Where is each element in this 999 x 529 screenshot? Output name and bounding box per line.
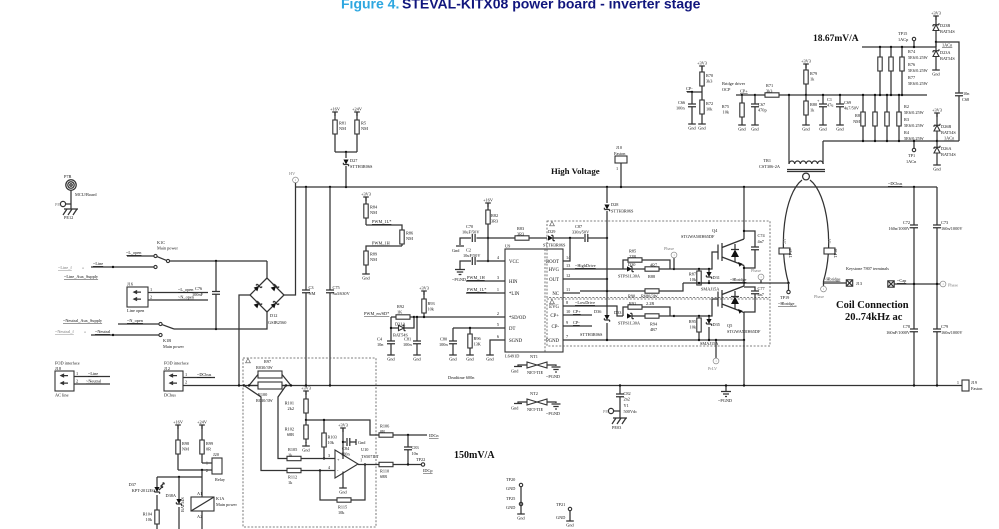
ground Gnd (C4) [387, 351, 395, 362]
svg-text:~Hbridge: ~Hbridge [730, 277, 746, 282]
junction BOOT/C87 [569, 237, 571, 239]
svg-text:SMAJ15A: SMAJ15A [701, 287, 720, 292]
svg-text:R030/3W: R030/3W [256, 398, 274, 403]
svg-text:PWM_1L*: PWM_1L* [467, 287, 486, 292]
svg-text:R98: R98 [182, 441, 189, 446]
svg-text:NT2: NT2 [530, 391, 538, 396]
diode D36 STTH3R06S [580, 309, 610, 340]
switch K1C (Main power) [154, 240, 179, 269]
svg-text:~Neutral_Aux_Supply: ~Neutral_Aux_Supply [63, 318, 103, 323]
junction TP1 [913, 140, 915, 142]
svg-text:10uF/50V: 10uF/50V [463, 253, 481, 258]
LED D37 KPT-2012EC [129, 477, 165, 510]
svg-text:D31: D31 [713, 275, 720, 280]
svg-text:Faston: Faston [614, 151, 626, 156]
junction C74 top [743, 230, 745, 232]
svg-text:2: 2 [497, 311, 499, 316]
svg-text:C66: C66 [678, 100, 686, 105]
svg-text:C70: C70 [466, 224, 473, 229]
svg-text:100n: 100n [403, 342, 412, 347]
wire feedback to R115 [320, 471, 337, 501]
svg-text:R77: R77 [908, 75, 916, 80]
resistor R2 5E6/0.25W [873, 95, 877, 141]
resistor R95 10k [689, 316, 701, 340]
junction output/R115 [364, 463, 366, 465]
svg-text:Gnd: Gnd [452, 248, 460, 253]
svg-text:10k: 10k [690, 277, 697, 282]
svg-text:470p: 470p [758, 108, 767, 113]
svg-text:10k: 10k [338, 510, 345, 515]
svg-text:C2: C2 [466, 248, 471, 253]
svg-text:3R3: 3R3 [491, 219, 498, 224]
svg-text:R92: R92 [397, 304, 404, 309]
dashed box current sense [243, 358, 376, 527]
svg-text:R104: R104 [143, 512, 153, 517]
junction C69 [839, 94, 841, 96]
svg-text:5: 5 [497, 322, 499, 327]
resistor R101 2k2 [285, 391, 309, 420]
svg-text:C83: C83 [412, 445, 419, 450]
junction R103 bottom [323, 457, 325, 459]
junction Q4 emitter [743, 282, 745, 284]
ground Gnd (C1) [819, 121, 827, 132]
svg-text:1K: 1K [397, 310, 403, 315]
svg-text:~PGND: ~PGND [718, 398, 732, 403]
testpoint TP25 GND [506, 487, 523, 510]
svg-text:1ACn: 1ACn [942, 43, 953, 48]
capacitor C2 10uF/50V [460, 248, 488, 267]
junction mid rail R76 [890, 94, 892, 96]
net tie NT1 [518, 354, 556, 375]
svg-text:~Line_Aux_Supply: ~Line_Aux_Supply [64, 274, 99, 279]
svg-text:~PGND: ~PGND [546, 411, 560, 416]
junction HV/D27 [345, 186, 347, 188]
svg-text:FOD interface: FOD interface [164, 361, 189, 366]
resistor R110 68R [379, 462, 421, 479]
junction D31 top [708, 268, 710, 270]
power +3V3 (D26B) [932, 107, 942, 117]
svg-text:R86: R86 [406, 231, 414, 236]
junction C4 [390, 327, 392, 329]
svg-text:~DCbus: ~DCbus [197, 372, 212, 377]
svg-text:NT1: NT1 [530, 354, 538, 359]
power +24V (relay) [197, 419, 208, 429]
node Phase (gate drive ref) [664, 246, 677, 269]
svg-text:BAT54S: BAT54S [940, 29, 955, 34]
svg-text:100nF: 100nF [192, 292, 204, 297]
wire ~L_open to K1C [127, 255, 154, 257]
svg-text:10uF/50V: 10uF/50V [462, 230, 480, 235]
svg-text:Y1: Y1 [624, 403, 629, 408]
junction R3 [886, 94, 888, 96]
svg-text:DCbus: DCbus [164, 393, 176, 398]
svg-text:~N_open: ~N_open [127, 318, 144, 323]
ground Gnd (TP21) [566, 517, 574, 528]
capacitor C87 330n/50V [572, 224, 607, 242]
svg-text:4R7: 4R7 [650, 263, 658, 268]
power +3V3 (R101) [301, 385, 311, 395]
svg-text:HV: HV [289, 171, 296, 176]
svg-text:U9: U9 [505, 244, 510, 249]
svg-text:3k3: 3k3 [766, 89, 772, 94]
svg-text:BOOT: BOOT [546, 260, 559, 265]
ground Gnd (C66) [688, 120, 696, 131]
wire ~Neutral row into K1B [91, 334, 159, 336]
junction J10 [620, 186, 622, 188]
wire Q5 collector to Hbridge [743, 283, 745, 286]
svg-text:1: 1 [497, 287, 499, 292]
svg-text:J19: J19 [971, 380, 977, 385]
wire kelvin sense right to R105 [278, 386, 287, 459]
resistor R8 NM [853, 95, 865, 141]
junction R103 top [323, 419, 325, 421]
svg-text:OUT: OUT [549, 278, 559, 283]
resistor R83 3R3 [515, 226, 547, 240]
junction R76 [890, 46, 892, 48]
wire HVG pin13 (~HighDrive) [563, 263, 623, 269]
junction bottom rail / bridge negative [238, 384, 240, 386]
wire bottom rail (DC bus negative) [183, 385, 966, 387]
svg-text:10: 10 [566, 309, 570, 314]
ground Gnd (C80) [449, 351, 457, 362]
junction R96/DT [469, 327, 471, 329]
svg-text:R90: R90 [628, 294, 635, 299]
wire top bank rail [862, 46, 936, 48]
svg-text:BAT54S: BAT54S [941, 130, 956, 135]
svg-text:R74: R74 [908, 49, 916, 54]
node PE [55, 201, 71, 207]
junction bot rail R2 [874, 140, 876, 142]
svg-text:CP+: CP+ [550, 314, 559, 319]
svg-text:10k: 10k [690, 325, 697, 330]
ground Gnd (C81) [413, 351, 421, 362]
resistor R80 1k [804, 95, 817, 121]
junction on ~Neutral wire [112, 334, 114, 336]
junction C74 bottom [743, 267, 745, 269]
svg-text:PWM_1H: PWM_1H [372, 241, 390, 246]
transformer TR1 CST306-2A [759, 158, 825, 180]
wire bridge positive up to HV rail [284, 187, 296, 295]
junction VCC/C2 [487, 260, 489, 262]
svg-text:NET-TIE: NET-TIE [527, 407, 543, 412]
resistor R74 5E6/0.25W [878, 47, 882, 95]
switch K1B (Main power) [159, 322, 185, 349]
junction gate node Q5 [673, 315, 675, 317]
junction R74 [879, 46, 881, 48]
svg-text:100n: 100n [676, 106, 685, 111]
svg-text:GSIB2560: GSIB2560 [268, 320, 286, 325]
resistor R91 2.2R (low gate) [623, 301, 670, 316]
svg-text:J16: J16 [127, 282, 134, 287]
svg-text:Main power: Main power [157, 246, 178, 251]
junction CP+/R75 [741, 94, 743, 96]
svg-text:R106: R106 [380, 424, 390, 429]
wire R81/R5 join [335, 151, 357, 153]
svg-text:18.67mV/A: 18.67mV/A [813, 34, 859, 44]
resistor R104 10k [143, 510, 160, 529]
resistor R79 1k [804, 64, 817, 95]
diode D38A BAT54S [165, 477, 185, 529]
svg-text:MCU/Board: MCU/Board [75, 192, 97, 197]
svg-text:R110: R110 [380, 469, 389, 474]
svg-text:NM: NM [309, 291, 316, 296]
ground ~PGND (NT1) [546, 367, 561, 379]
svg-text:12: 12 [566, 273, 570, 278]
svg-text:13K: 13K [474, 342, 482, 347]
ground Gnd (NT2) [511, 404, 522, 411]
svg-text:STPS1L30A: STPS1L30A [618, 321, 641, 326]
svg-text:2.2R: 2.2R [646, 301, 654, 306]
svg-text:R81: R81 [339, 121, 346, 126]
wire R98 to J20 pin2 [178, 469, 212, 471]
svg-text:R95: R95 [689, 319, 696, 324]
svg-text:CP+: CP+ [740, 89, 748, 94]
svg-text:K1C: K1C [157, 240, 165, 245]
svg-text:U10: U10 [361, 447, 368, 452]
resistor R82 3R3 [486, 203, 498, 261]
svg-text:R85: R85 [629, 249, 636, 254]
svg-text:NM: NM [370, 257, 377, 262]
svg-text:Gnd: Gnd [358, 440, 366, 445]
junction R95 top [698, 315, 700, 317]
svg-text:~Line_f: ~Line_f [58, 265, 72, 270]
wire OUT pin12 [563, 278, 607, 280]
relay coil K1A Main power [191, 477, 237, 529]
junction bot rail R4 [898, 140, 900, 142]
svg-text:R87: R87 [689, 272, 697, 277]
svg-text:NC: NC [552, 292, 559, 297]
ground ~PGND (C2) [452, 266, 466, 282]
svg-text:13: 13 [566, 263, 570, 268]
svg-text:Phase: Phase [751, 268, 761, 273]
node Phase (coil side) [814, 283, 826, 299]
svg-text:Phase: Phase [814, 294, 824, 299]
ground Gnd (R75) [738, 121, 746, 132]
svg-text:~Hbridge: ~Hbridge [824, 277, 840, 282]
svg-text:PWM_1L*: PWM_1L* [372, 219, 391, 224]
resistor R98 NM [176, 425, 189, 470]
junction D35 top [708, 315, 710, 317]
junction HV/C72 [913, 186, 915, 188]
connector J13 (Keystone terminal) [846, 280, 862, 286]
svg-text:D12: D12 [270, 313, 277, 318]
connector J19 Faston [957, 380, 983, 391]
svg-text:100n: 100n [439, 342, 448, 347]
svg-text:J20: J20 [213, 452, 219, 457]
svg-text:P7B: P7B [64, 174, 72, 179]
junction R71/TR1 [788, 94, 790, 96]
ground Gnd (C69) [836, 121, 844, 132]
resistor R4 5E6/0.25W [897, 95, 901, 141]
testpoint TP20 GND [506, 477, 523, 491]
svg-text:Gnd: Gnd [511, 406, 519, 411]
svg-text:R030/3W: R030/3W [256, 365, 274, 370]
wire Q5 emitter / PGND row [563, 313, 744, 341]
junction HV/D28 [606, 186, 608, 188]
capacitor C75 3u3/630V [326, 187, 351, 386]
ground Gnd (D23A) [932, 66, 940, 77]
wire relay drive row [157, 470, 202, 477]
svg-text:R70: R70 [706, 73, 713, 78]
svg-text:2k2: 2k2 [288, 406, 294, 411]
shunt resistor R100 R030/3W [249, 382, 291, 403]
svg-text:*SD/OD: *SD/OD [509, 316, 526, 321]
svg-text:1: 1 [185, 372, 187, 377]
wire DT pin [453, 327, 505, 329]
svg-text:~Hbridge_: ~Hbridge_ [778, 301, 797, 306]
svg-text:Main power: Main power [216, 502, 237, 507]
capacitor C69 4u7/50V [836, 95, 860, 121]
svg-text:TR1: TR1 [763, 158, 771, 163]
svg-text:1ACn: 1ACn [906, 159, 917, 164]
svg-text:EVG: EVG [549, 305, 559, 310]
svg-text:Faston: Faston [971, 386, 983, 391]
svg-text:STEVAL-KITX08 power board - in: STEVAL-KITX08 power board - inverter sta… [402, 0, 701, 12]
svg-text:FOD interface: FOD interface [55, 361, 80, 366]
dashed box high side driver [547, 221, 770, 298]
wire bootstrap node down [606, 238, 608, 315]
svg-text:VCC: VCC [509, 260, 519, 265]
shunt resistor R97 R030/3W [249, 359, 291, 386]
resistor R103 10k [322, 420, 337, 459]
svg-text:1: 1 [150, 287, 152, 292]
svg-text:«: « [84, 329, 86, 334]
svg-text:C68: C68 [962, 97, 969, 102]
junction emitter row / TP19 lead [787, 282, 789, 284]
svg-text:PE: PE [55, 202, 60, 207]
connector J16 (Line open) [127, 282, 208, 314]
junction HV/C3 [305, 186, 307, 188]
connector J20 Relay [206, 452, 226, 482]
svg-text:2H: 2H [782, 239, 787, 244]
wire PWM_1L* pull [366, 225, 402, 230]
svg-text:NM: NM [361, 126, 368, 131]
svg-text:1: 1 [616, 166, 618, 171]
svg-text:C73: C73 [941, 220, 948, 225]
bridge rectifier D12 GSIB2560 [250, 278, 286, 325]
svg-text:C77: C77 [758, 286, 766, 291]
svg-text:R83: R83 [517, 226, 524, 231]
junction PGND/R95 [698, 339, 700, 341]
junction D38A top [178, 476, 180, 478]
svg-text:10k: 10k [706, 107, 713, 112]
junction bot rail R8 [862, 140, 864, 142]
svg-text:Bridge driver: Bridge driver [722, 81, 746, 86]
svg-text:R97: R97 [264, 359, 272, 364]
svg-text:J10: J10 [616, 145, 622, 150]
wire phase tap row [894, 283, 940, 285]
svg-text:L6491D: L6491D [505, 354, 519, 359]
wire VCC pin [488, 260, 505, 262]
net label PWM_1L* (LIN) [466, 287, 505, 293]
svg-text:C4: C4 [377, 337, 383, 342]
svg-text:C74: C74 [758, 233, 766, 238]
junction R87 top [698, 268, 700, 270]
node PE (Y1) [603, 408, 620, 414]
svg-text:R3: R3 [904, 117, 909, 122]
svg-text:D33: D33 [614, 310, 621, 315]
svg-text:R82: R82 [491, 213, 498, 218]
resistor R88 4R7 [632, 263, 674, 280]
svg-text:HIN: HIN [509, 280, 518, 285]
svg-text:~Line: ~Line [88, 371, 98, 376]
svg-text:R8: R8 [855, 113, 860, 118]
svg-text:HVG: HVG [549, 268, 560, 273]
wire 1ACn to C68 [937, 140, 959, 142]
node Phase (cap divider) [940, 281, 958, 287]
resistor R90 R680/3W [628, 289, 659, 299]
junction C87/D28 [606, 237, 608, 239]
svg-text:C67: C67 [758, 102, 766, 107]
wire top bank to 1ACn node [935, 42, 937, 47]
wire ~Line row into K1C [91, 266, 154, 268]
wire ~N_open to K1B [118, 323, 159, 325]
junction D27 top [345, 151, 347, 153]
svg-text:TP15: TP15 [898, 31, 907, 36]
junction R87 bottom [698, 282, 700, 284]
wire CP- pin9 to OCP [563, 325, 592, 327]
svg-text:2: 2 [150, 295, 152, 300]
resistor R5 NM [355, 112, 368, 152]
capacitor C4 10n [377, 328, 395, 351]
resistor R112 1k [287, 468, 335, 485]
svg-text:10k: 10k [428, 307, 435, 312]
svg-text:100n: 100n [341, 452, 350, 457]
svg-text:10k: 10k [146, 517, 153, 522]
power +3V3 (R84) [361, 191, 371, 201]
svg-text:PE: PE [603, 409, 608, 414]
svg-text:Coil Connection: Coil Connection [836, 300, 909, 311]
svg-text:C75: C75 [333, 285, 340, 290]
diode D33 STPS1L30A [614, 310, 641, 326]
resistor R75 10k [722, 95, 744, 121]
op-amp driver U9 L6491D [497, 244, 571, 359]
svg-text:D29: D29 [548, 229, 555, 234]
wire Q5 emitter to bottom rail [743, 340, 745, 386]
junction R93/SD [423, 316, 425, 318]
junction R2 [874, 94, 876, 96]
junction HV/C75 [329, 186, 331, 188]
svg-text:CP+: CP+ [573, 309, 581, 314]
svg-text:R101: R101 [285, 401, 294, 406]
svg-text:D23A: D23A [940, 50, 951, 55]
wire bridge top corner to AC line [266, 261, 268, 278]
svg-text:AC line: AC line [55, 393, 69, 398]
svg-text:2n2: 2n2 [624, 397, 630, 402]
resistor R70 3k3 [700, 66, 713, 92]
svg-text:~Neutral_f: ~Neutral_f [55, 329, 74, 334]
svg-text:Q5: Q5 [727, 323, 732, 328]
svg-text:4n7: 4n7 [758, 239, 765, 244]
junction shunt right [290, 384, 292, 386]
svg-text:0R: 0R [380, 429, 385, 434]
connector J18 FOD interface (AC line) [55, 361, 110, 398]
svg-text:«: « [82, 265, 84, 270]
svg-text:2: 2 [185, 380, 187, 385]
svg-text:C87: C87 [575, 224, 583, 229]
net label PWM_1H (HIN) [466, 275, 505, 281]
svg-text:~PGND: ~PGND [452, 277, 466, 282]
svg-text:GND: GND [506, 505, 515, 510]
svg-text:A1: A1 [197, 491, 202, 496]
resistor R94 4R7 [632, 314, 674, 332]
svg-text:3k3: 3k3 [706, 79, 712, 84]
junction R8 [862, 94, 864, 96]
svg-text:D28: D28 [611, 202, 618, 207]
svg-text:BAT54S: BAT54S [941, 152, 956, 157]
diode D28 STTH3R06S [604, 187, 634, 238]
svg-text:3: 3 [497, 275, 499, 280]
